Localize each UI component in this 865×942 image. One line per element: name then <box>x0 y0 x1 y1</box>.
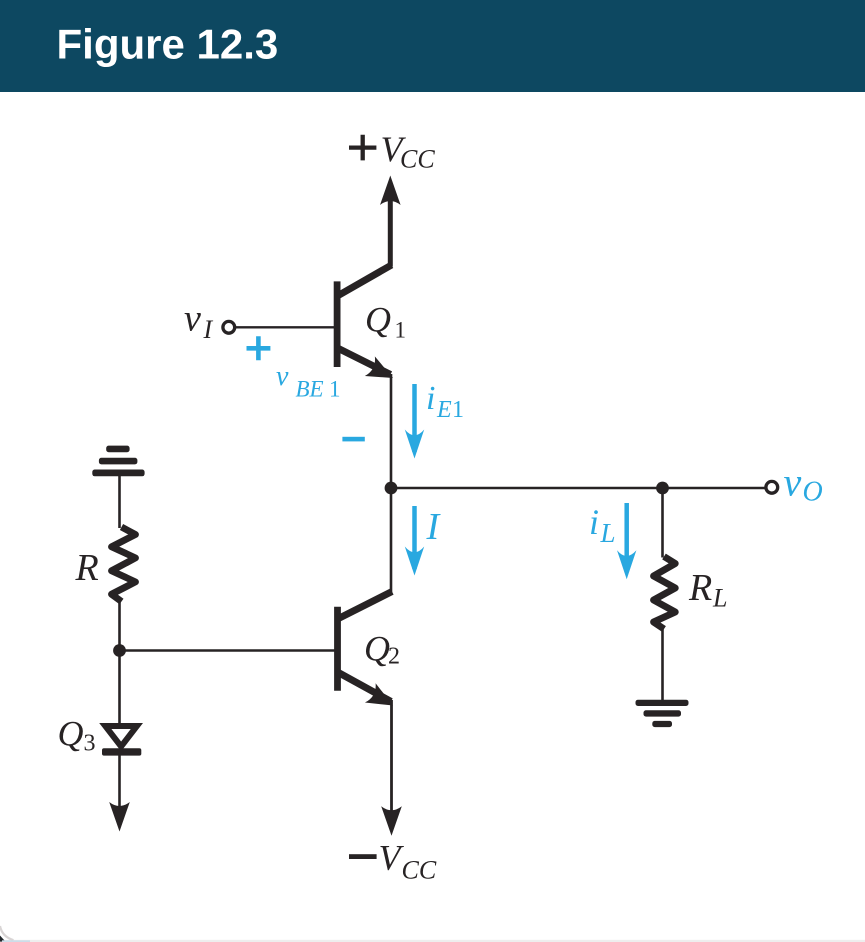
transistor Q2 collector diagonal <box>337 592 393 620</box>
label iL (cyan) <box>589 502 616 548</box>
label Q2 <box>364 629 400 670</box>
svg-text:Q: Q <box>365 300 391 340</box>
node emitter/output junction <box>385 482 398 495</box>
label vBE1 (cyan) <box>276 361 341 402</box>
svg-text:1: 1 <box>329 377 341 402</box>
svg-text:E: E <box>436 397 452 423</box>
wire R top (ground to resistor) <box>118 476 121 529</box>
label Q1 <box>365 300 406 343</box>
svg-text:L: L <box>600 518 616 548</box>
svg-text:v: v <box>276 361 289 392</box>
power +VCC arrow <box>380 176 401 267</box>
label iE1 (cyan) <box>426 380 464 423</box>
svg-text:Q: Q <box>58 714 84 754</box>
node Q2 base junction <box>113 644 126 657</box>
label − (cyan, at vBE1 minus) <box>342 437 364 442</box>
svg-text:CC: CC <box>400 145 435 174</box>
diode Q3 (diode-connected transistor) triangle <box>105 726 137 747</box>
svg-text:2: 2 <box>388 644 400 670</box>
Q3 branch arrow (to −VCC) <box>109 802 130 832</box>
input terminal vI (open circle) <box>223 321 235 333</box>
svg-text:Q: Q <box>364 629 390 669</box>
bottom-left dark corner fragment <box>0 936 6 942</box>
svg-text:CC: CC <box>402 856 437 885</box>
node RL junction <box>656 482 669 495</box>
svg-text:i: i <box>589 502 599 542</box>
wire Q3 cathode down <box>118 755 121 810</box>
label RL <box>688 567 727 613</box>
svg-text:v: v <box>784 460 802 505</box>
bottom edge strip <box>0 940 865 942</box>
wire Q2 base to node <box>120 649 335 651</box>
header bar <box>0 0 865 92</box>
wire Q1 base <box>235 326 335 328</box>
svg-text:L: L <box>712 584 727 613</box>
wire Q2 emitter down <box>390 700 393 812</box>
resistor R <box>112 527 136 602</box>
current arrow iL (cyan) <box>617 503 636 579</box>
resistor RL <box>654 557 676 630</box>
svg-text:1: 1 <box>395 318 407 343</box>
power −VCC arrow <box>381 806 402 836</box>
transistor Q2 emitter diagonal <box>337 672 392 702</box>
bottom-left pale blue sliver <box>2 940 30 942</box>
svg-text:Figure 12.3: Figure 12.3 <box>57 21 279 68</box>
ground symbol (right, below RL) <box>636 700 689 727</box>
label + (cyan, at vBE1 plus) <box>247 336 271 360</box>
current arrow iE1 (cyan) <box>405 384 424 459</box>
transistor Q2 emitter arrowhead <box>365 683 398 715</box>
current arrow I (cyan) <box>405 506 424 576</box>
svg-text:I: I <box>426 506 442 548</box>
svg-text:I: I <box>203 315 214 344</box>
svg-text:R: R <box>75 547 99 589</box>
wire R bottom through node to Q3 anode <box>118 601 121 724</box>
wire RL bottom <box>661 628 664 701</box>
diode Q3 cathode bar <box>102 748 141 755</box>
transistor Q1 emitter diagonal <box>337 348 391 375</box>
transistor Q1 collector diagonal <box>337 265 392 297</box>
label +VCC <box>349 129 435 174</box>
svg-text:1: 1 <box>452 397 464 423</box>
svg-text:v: v <box>184 298 201 340</box>
bottom-left corner card shadow arc <box>0 926 14 940</box>
svg-text:BE: BE <box>296 377 324 402</box>
svg-text:3: 3 <box>84 731 96 757</box>
label Q3 <box>58 714 96 757</box>
transistor Q1 base bar <box>334 281 341 367</box>
transistor Q2 base bar <box>334 607 341 691</box>
svg-text:i: i <box>426 380 435 417</box>
ground symbol (left, above R; inverted) <box>92 446 144 477</box>
transistor Q1 emitter arrowhead <box>365 356 398 387</box>
svg-text:R: R <box>688 567 712 609</box>
svg-text:O: O <box>803 477 823 508</box>
label vO (cyan) <box>784 460 823 508</box>
label −VCC <box>349 838 437 885</box>
label vI <box>184 298 214 345</box>
wire RL top <box>661 488 664 558</box>
wire output node to vO terminal <box>391 487 766 490</box>
wire emitter column Q1 to Q2 <box>390 374 393 593</box>
output terminal vO (open circle) <box>766 481 778 493</box>
